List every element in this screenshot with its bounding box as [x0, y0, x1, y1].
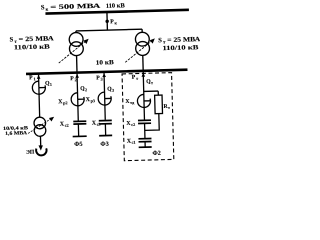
wire furnace vertical — [142, 72, 145, 101]
node junction dot Pk — [105, 20, 108, 23]
wire feeder2 upper — [76, 74, 79, 100]
wire to terminator — [144, 142, 146, 147]
wire furnace lower — [144, 123, 146, 138]
load cup — [36, 148, 47, 155]
wire T2 top lead — [141, 29, 143, 32]
reactor L3 — [98, 92, 111, 105]
wire T2 bottom lead — [142, 55, 144, 71]
capacitor C2 — [73, 121, 86, 124]
bus 10 kV — [26, 70, 187, 74]
wire R branch top — [157, 91, 159, 95]
svg-text:110/10 кВ: 110/10 кВ — [162, 44, 199, 52]
wire feeder3 upper — [103, 73, 106, 99]
terminator F5 — [73, 135, 87, 137]
svg-text:Ф2: Ф2 — [152, 150, 161, 157]
transformer T1 — [69, 32, 83, 55]
svg-text:= 25 МВА: = 25 МВА — [167, 36, 200, 44]
wire feeder2 mid — [77, 99, 80, 120]
svg-text:S: S — [158, 37, 162, 44]
wire feeder1 upper — [38, 75, 40, 88]
svg-text:= 25 МВА: = 25 МВА — [19, 35, 54, 43]
bus 110 kV — [45, 10, 188, 14]
svg-text:Ф3: Ф3 — [100, 141, 109, 148]
svg-text:10 кВ: 10 кВ — [96, 59, 115, 66]
feeder 2: P2 arrow — [75, 74, 79, 78]
wire R branch bottom — [144, 114, 159, 131]
resistor Rt — [155, 95, 163, 114]
svg-text:р2: р2 — [63, 100, 68, 105]
svg-text:1: 1 — [33, 76, 35, 81]
capacitor Xc2 (box) — [138, 120, 151, 123]
svg-text:р3: р3 — [90, 98, 95, 103]
svg-text:с1: с1 — [132, 140, 136, 145]
feeder furnace: Pt arrow — [141, 73, 145, 77]
svg-text:т: т — [151, 80, 153, 85]
svg-text:к: к — [46, 7, 49, 12]
feeder 3: P3 arrow — [102, 73, 106, 77]
wire feeder2 lower — [77, 124, 79, 136]
svg-text:1: 1 — [50, 82, 52, 87]
svg-text:т: т — [168, 105, 170, 110]
svg-text:т: т — [136, 76, 138, 81]
wire feeder3 mid — [104, 99, 107, 120]
svg-text:3: 3 — [112, 88, 114, 93]
tap arrow T1 — [58, 39, 89, 63]
svg-text:S: S — [41, 4, 45, 11]
svg-text:Ф5: Ф5 — [74, 141, 83, 148]
svg-text:2: 2 — [85, 87, 87, 92]
svg-text:3: 3 — [101, 77, 103, 82]
svg-text:110 кВ: 110 кВ — [106, 2, 126, 10]
reactor L1 — [32, 81, 45, 94]
svg-text:с2: с2 — [131, 122, 135, 127]
wire furnace mid — [143, 101, 145, 120]
wire feeder3 lower — [104, 124, 106, 136]
tap arrow T3 — [28, 117, 55, 134]
wire Pk vertical — [106, 12, 108, 30]
transformer T3 (10/0.4 kV) — [34, 117, 46, 136]
reactor L2 — [71, 93, 84, 106]
svg-text:S: S — [10, 36, 14, 43]
svg-text:с2: с2 — [65, 123, 69, 128]
tap arrow T2 — [125, 38, 156, 62]
transformer T2 — [135, 32, 149, 55]
terminator F2 — [139, 146, 152, 148]
capacitor Xc1 (box) — [138, 138, 151, 141]
svg-text:= 500 МВА: = 500 МВА — [50, 3, 101, 11]
svg-text:ЭП: ЭП — [26, 150, 35, 156]
load arrow — [39, 145, 44, 150]
feeder 1: P1 arrow — [37, 75, 41, 79]
wire T1 top lead — [75, 31, 77, 33]
reactor Xtd — [137, 94, 150, 107]
capacitor C3 — [99, 120, 112, 124]
wire feeder1 lower — [38, 88, 41, 118]
terminator F3 — [99, 134, 112, 136]
wire to load — [39, 136, 41, 146]
svg-text:1,6 МВА: 1,6 МВА — [5, 131, 28, 137]
svg-text:2: 2 — [75, 77, 77, 82]
svg-text:110/10 кВ: 110/10 кВ — [14, 43, 51, 51]
dashed box filter F2 — [122, 73, 174, 161]
wire T split — [144, 90, 158, 92]
wire split line — [76, 29, 142, 31]
wire T1 bottom lead — [76, 56, 78, 73]
svg-text:с3: с3 — [97, 122, 101, 127]
